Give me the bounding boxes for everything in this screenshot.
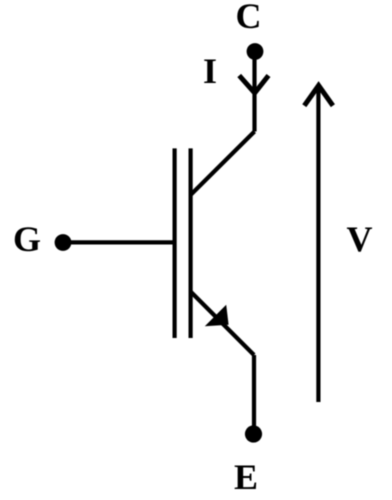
node E terminal dot [245, 425, 262, 442]
wire collector vertical [252, 52, 256, 132]
IGBT Q1 emitter arrowhead [205, 305, 229, 327]
voltage arrow V line [316, 87, 320, 402]
wire emitter diagonal [191, 292, 255, 356]
svg-text:I: I [203, 51, 217, 91]
node G terminal dot [55, 234, 72, 251]
svg-text:V: V [347, 219, 373, 259]
node C terminal dot [247, 43, 264, 60]
svg-text:G: G [13, 219, 41, 259]
voltage arrow V head [304, 86, 333, 106]
wire emitter vertical [252, 355, 256, 434]
current arrow I head [239, 76, 268, 94]
svg-text:E: E [234, 457, 258, 497]
IGBT Q1 gate bar [173, 148, 177, 338]
IGBT Q1 body bar [189, 148, 193, 338]
svg-text:C: C [236, 0, 262, 36]
wire collector diagonal [191, 132, 255, 196]
wire gate horizontal [63, 240, 175, 244]
